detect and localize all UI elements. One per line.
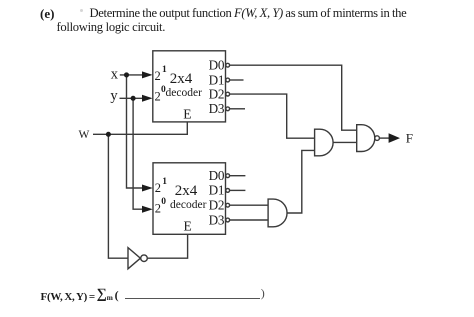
wire: x branch down to U2 pin 2^1 <box>127 75 143 188</box>
decoder U2 box <box>153 163 226 235</box>
output bubble U2 D0 <box>226 174 230 178</box>
svg-text:F: F <box>406 131 413 146</box>
inverter U3 bubble <box>141 255 148 262</box>
wire: x input to U1 pin 2^1 <box>120 74 143 76</box>
svg-text:0: 0 <box>161 197 166 207</box>
svg-text:1: 1 <box>162 177 167 187</box>
junction dot on x wire <box>124 72 129 77</box>
wire: U1 D1 stub <box>230 79 244 81</box>
wire: U2 D0 stub <box>230 175 246 177</box>
stray scan dot <box>80 9 83 12</box>
formula blank underline <box>125 298 261 299</box>
wire: U2 D3 to AND G3 bottom input <box>230 219 268 221</box>
decoder U1 box <box>153 51 226 122</box>
output bubble U2 D1 <box>226 189 230 193</box>
svg-text:x: x <box>111 67 119 83</box>
svg-text:2: 2 <box>155 181 161 195</box>
svg-text:D2: D2 <box>209 86 225 101</box>
svg-text:1: 1 <box>162 65 167 75</box>
svg-text:2x4: 2x4 <box>170 71 193 87</box>
wire: U1 D3 stub <box>230 108 245 110</box>
wire: NAND G2 output to F arrow <box>379 137 389 139</box>
arrowhead y into U1 <box>142 95 153 102</box>
wire: y input to U1 pin 2^0 <box>120 97 143 99</box>
header line 1 text <box>90 6 407 21</box>
AND gate G3 <box>268 199 287 227</box>
wire: W branch down to inverter input <box>108 134 128 258</box>
svg-text:2: 2 <box>155 69 161 83</box>
svg-text:decoder: decoder <box>170 199 207 211</box>
svg-text:W: W <box>79 129 90 141</box>
arrowhead x into U1 <box>142 71 153 78</box>
NAND gate G2 bubble <box>375 136 380 141</box>
inverter U3 triangle <box>128 248 140 269</box>
arrowhead x into U2 <box>142 185 153 192</box>
svg-text:y: y <box>110 88 118 104</box>
svg-text:0: 0 <box>161 85 166 95</box>
header line 1: problem label (e) <box>40 6 54 22</box>
svg-text:E: E <box>184 219 192 234</box>
wire: U1 D2 to AND G1 top input <box>230 94 315 138</box>
svg-text:D2: D2 <box>209 198 225 213</box>
wire: U1 D0 to NAND G2 top input <box>230 65 357 130</box>
AND gate G1 <box>315 129 333 156</box>
output bubble U1 D3 <box>226 107 230 111</box>
wire: U2 D1 stub <box>230 189 246 191</box>
svg-text:E: E <box>183 107 191 122</box>
output bubble U2 D2 <box>226 203 230 207</box>
formula F(W,X,Y) = sum m ( ... ) <box>41 290 119 302</box>
wire: AND G1 output to NAND G2 bottom input <box>333 141 357 143</box>
output bubble U1 D2 <box>226 92 230 96</box>
wire: AND G3 output up to AND G1 bottom input <box>287 150 315 213</box>
svg-text:D1: D1 <box>209 72 225 87</box>
output bubble U1 D0 <box>226 63 230 67</box>
svg-text:D3: D3 <box>209 212 225 227</box>
svg-text:2: 2 <box>155 90 161 104</box>
NAND gate G2 body <box>357 125 375 152</box>
svg-text:decoder: decoder <box>166 87 203 99</box>
wire: y branch down to U2 pin 2^0 <box>133 98 142 209</box>
header line 2 text <box>57 20 166 35</box>
svg-text:D1: D1 <box>209 183 225 198</box>
wire: U2 D2 to AND G3 top input <box>230 204 268 206</box>
wire: W input to U1 pin E <box>93 122 187 134</box>
output bubble U1 D1 <box>226 78 230 82</box>
output bubble U2 D3 <box>226 218 230 222</box>
svg-text:D0: D0 <box>209 168 225 183</box>
junction dot on W wire <box>106 132 111 137</box>
arrowhead output F <box>389 133 400 143</box>
svg-text:2x4: 2x4 <box>175 183 198 199</box>
svg-text:D3: D3 <box>209 101 225 116</box>
wire: inverter output to U2 pin E <box>147 234 187 258</box>
svg-text:D0: D0 <box>209 58 225 73</box>
formula closing paren <box>261 286 265 301</box>
arrowhead y into U2 <box>142 206 153 213</box>
svg-text:2: 2 <box>155 202 161 216</box>
junction dot on y wire <box>131 96 136 101</box>
